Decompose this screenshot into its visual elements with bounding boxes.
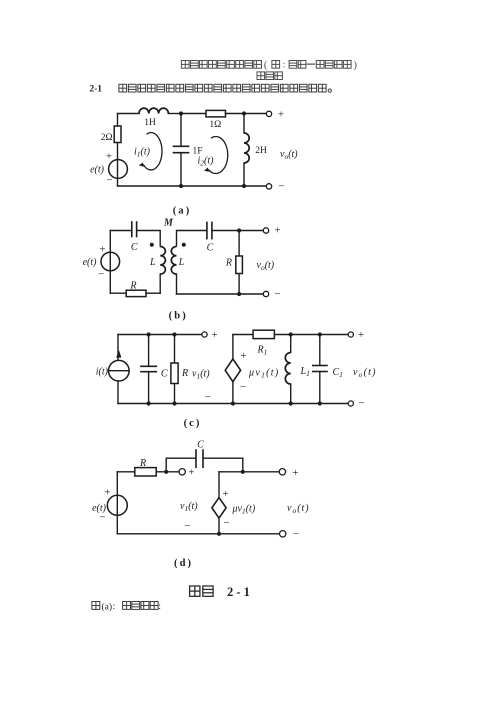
capacitor C right plates [206, 222, 208, 238]
svg-text:+: + [222, 488, 228, 500]
svg-text:( c ): ( c ) [184, 418, 200, 429]
svg-text:v1(t): v1(t) [180, 501, 198, 513]
svg-text:2Ω: 2Ω [101, 133, 113, 143]
problem text: 对下图所示电路图分别列写求电压的微分方程表示。 [119, 84, 332, 92]
resistor R vertical (b) [236, 256, 243, 274]
terminal: (a) output bottom [266, 184, 271, 189]
dependent source diamond (c) riser [232, 335, 234, 360]
node: (c) bottom diamond junction [231, 401, 235, 405]
answer line: 图(a)：微分方程： [92, 602, 100, 610]
terminal: (d) output top [279, 469, 285, 475]
loop arrow i1 [143, 133, 162, 170]
source e(t) circle (a) [109, 160, 128, 179]
svg-text:−: − [278, 181, 284, 193]
wire: (c) top C1 to terminal [320, 334, 351, 336]
node: (d) bottom diamond junction [217, 532, 221, 536]
svg-text:2 - 1: 2 - 1 [227, 585, 250, 599]
wire: (b) left coil bottom stem [159, 274, 161, 293]
node: (b) bottom R junction [237, 292, 241, 296]
terminal: (d) v1 [179, 469, 185, 475]
wire: (b) top node to terminal [239, 230, 266, 232]
wire: (d) diamond corner to node B to terminal [219, 471, 282, 473]
svg-text:−: − [293, 528, 299, 540]
resistor R (c) [171, 363, 178, 384]
wire: (a) top right node to terminal [244, 113, 269, 115]
svg-text:e(t): e(t) [90, 165, 105, 176]
svg-text:( b ): ( b ) [169, 310, 187, 321]
svg-text:e(t): e(t) [92, 503, 107, 514]
node: (a) bottom cap junction [179, 184, 183, 188]
current source i(t) circle [109, 360, 130, 381]
node: (c) bottom L1 junction [289, 401, 293, 405]
wire: (b) top left to cap [110, 230, 131, 232]
wire: (c) top right from diamond [233, 334, 253, 336]
capacitor C branch (d): riser and top wire [166, 458, 196, 472]
wire: (c) left vertical lower [117, 381, 119, 404]
node: (c) top C junction [147, 332, 151, 336]
svg-text:( d ): ( d ) [174, 558, 192, 569]
svg-text:+: + [358, 329, 364, 341]
node A (d) [164, 470, 168, 474]
wire: (c) top left [118, 334, 205, 336]
svg-text:L: L [178, 257, 185, 268]
resistor R1 (c) [253, 330, 274, 338]
wire: (a) top from left to 1H [118, 113, 140, 115]
svg-text:−: − [358, 398, 364, 410]
inductor 2H wires [243, 114, 245, 134]
wire: (c) top R1 to L1 [274, 334, 290, 336]
wire: (b) top cap to left coil corner [137, 231, 160, 247]
dependent source diamond (c) [225, 359, 240, 382]
svg-text:2H: 2H [255, 146, 267, 156]
svg-text:+: + [240, 350, 246, 362]
svg-text:i(t): i(t) [96, 367, 109, 378]
svg-text:(a): (a) [102, 601, 113, 612]
terminal: (c) output top [348, 332, 353, 337]
node: (c) bottom C1 junction [318, 401, 322, 405]
wire: (c) top L1 to C1 [291, 334, 320, 336]
wire: (a) top 1ohm to right node [226, 113, 245, 115]
svg-text:−: − [98, 269, 104, 281]
svg-text:vo(t): vo(t) [280, 149, 298, 161]
loop arrow i2 [208, 137, 227, 174]
inductor L1 [285, 353, 290, 385]
svg-text:2-1: 2-1 [89, 85, 102, 95]
terminal: (a) output top [266, 111, 271, 116]
svg-text:+: + [274, 225, 280, 237]
node: (c) bottom C junction [147, 401, 151, 405]
node: (c) top L1 junction [289, 332, 293, 336]
dependent source diamond (d) [212, 498, 226, 518]
wire: (a) top node to 1ohm [181, 113, 206, 115]
node: (a) bottom right junction [242, 184, 246, 188]
coupling dot left [150, 243, 154, 247]
coupling dot right [182, 243, 186, 247]
resistor R bottom (b) [126, 290, 146, 296]
svg-text:−: − [274, 288, 280, 300]
wire: (d) node A to v1 terminal [166, 471, 182, 473]
terminal: (c) v1 top [202, 332, 207, 337]
svg-text:i1(t): i1(t) [134, 147, 151, 159]
wire: (d) cap to node B [203, 458, 242, 472]
wire: (d) bottom [117, 533, 282, 535]
inductor L1 wires [290, 335, 292, 353]
wire: (d) top left to R [117, 471, 135, 473]
svg-text:C: C [207, 243, 214, 254]
inductor L right [171, 247, 176, 275]
svg-text:+: + [278, 109, 284, 121]
svg-text:−: − [205, 391, 211, 403]
svg-text:(: ( [264, 60, 268, 71]
capacitor 1F plates [174, 145, 189, 147]
terminal: (b) output bottom [263, 291, 268, 296]
source e(t) circle (b) [101, 252, 120, 271]
capacitor 1F wires [180, 114, 182, 147]
svg-text:C: C [131, 242, 138, 253]
svg-text:μv1(t): μv1(t) [232, 504, 256, 516]
node: (c) top C1 junction [318, 332, 322, 336]
node: (c) top R junction [172, 332, 176, 336]
svg-text::: : [113, 601, 116, 611]
wire: (d) left vertical [116, 472, 118, 534]
wire: (a) left vertical [117, 114, 119, 187]
capacitor C (d) plates [195, 450, 197, 467]
svg-text:L: L [149, 257, 156, 268]
svg-text:R: R [181, 368, 188, 379]
svg-text:L1: L1 [300, 366, 310, 378]
resistor 1ohm [206, 110, 226, 117]
resistor R (c) wires [174, 335, 176, 364]
wire: (d) R to node A [156, 471, 166, 473]
svg-text:i2(t): i2(t) [198, 156, 215, 168]
svg-text:+: + [104, 487, 110, 499]
resistor R vertical (b) wires [238, 231, 240, 257]
svg-text:μv1(t): μv1(t) [248, 368, 279, 380]
node: (a) top capacitor junction [179, 111, 183, 115]
capacitor C left plates [131, 222, 133, 237]
wire: (b) top cap to node [212, 230, 239, 232]
capacitor C (c) wires [148, 335, 150, 367]
wire: (c) left vertical upper [117, 335, 119, 361]
svg-text:e(t): e(t) [83, 257, 98, 268]
wire: (a) bottom [118, 185, 270, 187]
inductor 2H [244, 133, 249, 163]
svg-text::: : [158, 601, 161, 611]
svg-text::: : [283, 60, 286, 70]
capacitor C1 wires [319, 335, 321, 366]
current source arrow [116, 350, 121, 358]
svg-text:v1(t): v1(t) [192, 369, 210, 381]
svg-text:+: + [211, 329, 217, 341]
wire: (a) top 1H to cap node [168, 113, 181, 115]
capacitor C1 plates [313, 365, 327, 367]
wire: (c) bottom full [118, 403, 351, 405]
svg-text:+: + [188, 466, 194, 478]
wire: (b) left vertical [109, 231, 111, 294]
svg-text:R: R [129, 281, 136, 292]
wire: (b) bottom left [110, 292, 126, 294]
svg-text:C: C [161, 369, 168, 380]
terminal: (b) output top [263, 228, 268, 233]
svg-text:+: + [99, 244, 105, 256]
dependent source diamond (c) stem [232, 382, 234, 404]
svg-text:R: R [225, 258, 232, 269]
svg-text:vo(t): vo(t) [287, 503, 310, 515]
source e(t) circle (d) [107, 495, 127, 515]
current source bar [109, 370, 130, 372]
inductor L left [160, 247, 165, 275]
resistor R (d) [135, 468, 156, 476]
node: (b) top R junction [237, 228, 241, 232]
dependent source diamond (d) riser [218, 472, 220, 498]
inductor 1H [139, 108, 168, 113]
subtitle: 习题二 [257, 72, 282, 80]
svg-text:vo(t): vo(t) [257, 260, 275, 272]
terminal: (d) output bottom [280, 531, 286, 537]
terminal: (c) output bottom [348, 401, 353, 406]
svg-text:( a ): ( a ) [173, 205, 190, 216]
svg-text:C: C [197, 439, 204, 450]
wire: (b) right coil bottom stem [176, 274, 178, 294]
svg-text:vo(t): vo(t) [353, 367, 377, 379]
svg-text:R1: R1 [257, 344, 268, 356]
resistor 2ohm [114, 126, 121, 143]
wire: (b) bottom right [177, 293, 267, 295]
svg-text:1Ω: 1Ω [209, 120, 221, 130]
svg-text:+: + [292, 467, 298, 479]
svg-text:+: + [106, 151, 112, 163]
svg-text:M: M [163, 217, 174, 228]
node: (c) bottom R junction [172, 401, 176, 405]
inductor L right stem top [177, 231, 207, 247]
svg-text:C1: C1 [333, 367, 343, 379]
caption: 题图 2-1 [190, 586, 214, 596]
svg-text:−: − [106, 175, 112, 187]
svg-text:R: R [139, 458, 146, 469]
node B (d) [241, 470, 245, 474]
title line: 信号与系统习题答案（注：教材—郑君里编） [181, 60, 357, 71]
svg-text:1H: 1H [144, 118, 156, 128]
capacitor C (c) plates [141, 365, 156, 367]
wire: (b) bottom R to left coil [146, 292, 160, 294]
svg-text:−: − [240, 381, 246, 393]
svg-text:): ) [354, 60, 357, 71]
dependent source diamond (d) stem [218, 518, 220, 534]
svg-text:−: − [223, 517, 229, 529]
node: (a) top right junction [242, 111, 246, 115]
svg-text:−: − [184, 520, 190, 532]
